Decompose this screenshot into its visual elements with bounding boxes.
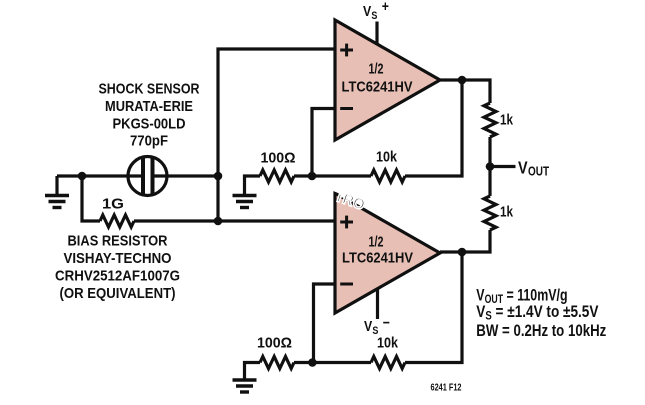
- svg-text:BIAS RESISTOR: BIAS RESISTOR: [68, 233, 168, 250]
- svg-text:OUT: OUT: [528, 166, 549, 179]
- svg-text:S: S: [372, 325, 378, 337]
- node top feedback junction: [308, 172, 317, 181]
- node bias resistor on rail: [214, 217, 223, 226]
- resistor 10k bottom feedback: [371, 357, 405, 369]
- svg-text:1G: 1G: [102, 196, 124, 213]
- svg-text:PKGS-00LD: PKGS-00LD: [113, 116, 186, 133]
- svg-text:LTC6241HV: LTC6241HV: [342, 250, 413, 267]
- svg-text:100Ω: 100Ω: [261, 150, 296, 167]
- label bias resistor block: [55, 233, 180, 303]
- op-amp U2 bottom 1/2 LTC6241HV: [335, 193, 440, 313]
- wire top op-amp noninverting input from left rail: [218, 49, 336, 221]
- node sensor right on rail: [214, 172, 223, 181]
- svg-text:1k: 1k: [500, 112, 514, 129]
- svg-text:+: +: [382, 0, 389, 14]
- svg-text:770pF: 770pF: [130, 133, 168, 150]
- svg-text:6241 F12: 6241 F12: [431, 383, 462, 394]
- svg-text:MURATA-ERIE: MURATA-ERIE: [105, 98, 193, 115]
- label VOUT node: [518, 158, 549, 179]
- resistor 10k top feedback: [371, 170, 405, 182]
- wire lower feedback row middle: [294, 361, 371, 364]
- wire bias row to lower op-amp noninverting input: [134, 219, 336, 222]
- svg-text:10k: 10k: [377, 335, 399, 352]
- svg-text:SHOCK SENSOR: SHOCK SENSOR: [99, 81, 200, 98]
- svg-text:V: V: [518, 158, 528, 178]
- wire sensor row left segment: [57, 174, 142, 177]
- supply pin VS+: [375, 22, 378, 46]
- wire top 100ohm ground stub: [245, 176, 261, 194]
- wire lower op-amp inverting input: [314, 284, 337, 363]
- label VS- supply: [364, 314, 390, 337]
- watermark artifact (white overlay): [334, 186, 368, 214]
- svg-text:VISHAY-TECHNO: VISHAY-TECHNO: [64, 250, 172, 267]
- wire top op-amp inverting input: [312, 109, 336, 177]
- resistor 100ohm top: [260, 170, 294, 182]
- wire vout node to lower 1k: [488, 167, 491, 197]
- node top op-amp output: [458, 76, 467, 85]
- ground bottom 100ohm: [233, 378, 257, 381]
- wire top feedback row middle: [294, 174, 371, 177]
- ground left of sensor: [45, 194, 69, 197]
- node lower op-amp output: [458, 248, 467, 257]
- node vout: [486, 162, 495, 171]
- shock sensor 770pF (piezo): [128, 157, 167, 196]
- wire sensor row right segment to rail: [154, 174, 219, 177]
- wire vout stub: [490, 165, 516, 168]
- svg-text:100Ω: 100Ω: [257, 335, 292, 352]
- svg-text:1/2: 1/2: [369, 61, 384, 78]
- wire bias-resistor branch left leg: [82, 176, 100, 221]
- svg-text:CRHV2512AF1007G: CRHV2512AF1007G: [55, 268, 180, 285]
- op-amp U1 top 1/2 LTC6241HV: [335, 20, 440, 140]
- svg-text:LTC6241HV: LTC6241HV: [342, 79, 413, 96]
- svg-text:1k: 1k: [500, 204, 514, 221]
- supply pin VS-: [376, 287, 379, 319]
- wire lower feedback to output node: [405, 252, 462, 363]
- svg-text:1/2: 1/2: [369, 234, 384, 251]
- label VS+ supply: [363, 0, 389, 22]
- ground top 100ohm: [233, 194, 257, 197]
- node lower feedback junction: [308, 358, 317, 367]
- svg-text:S: S: [371, 10, 377, 22]
- resistor 1k bottom: [484, 196, 496, 230]
- wire between top 1k and vout node: [488, 137, 491, 167]
- resistor 100ohm bottom: [260, 357, 294, 369]
- resistor 1k top: [484, 103, 496, 137]
- wire top feedback to output node: [405, 80, 462, 176]
- svg-text:VS = ±1.4V to ±5.5V: VS = ±1.4V to ±5.5V: [476, 303, 599, 323]
- ground left stub: [55, 176, 58, 194]
- svg-text:BW = 0.2Hz to 10kHz: BW = 0.2Hz to 10kHz: [476, 322, 606, 341]
- label shock sensor block: [99, 81, 200, 150]
- wire lower 100ohm ground stub: [245, 363, 261, 379]
- svg-text:(OR EQUIVALENT): (OR EQUIVALENT): [60, 285, 176, 302]
- wire lower 1k to lower op-amp output: [440, 230, 490, 252]
- node sensor left / ground: [78, 172, 87, 181]
- svg-text:10k: 10k: [376, 149, 398, 166]
- annotation equations: [476, 287, 606, 341]
- resistor 1G bias: [100, 215, 134, 227]
- wire top op-amp output: [440, 80, 490, 103]
- svg-text:−: −: [383, 314, 390, 330]
